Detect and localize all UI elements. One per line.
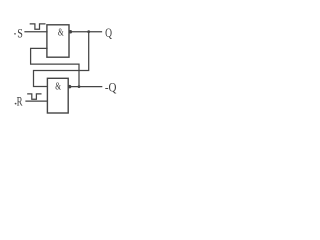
wire S input: [25, 31, 47, 33]
svg-text:-Q: -Q: [105, 81, 117, 95]
svg-text:R: R: [17, 95, 23, 109]
wire Q output: [72, 31, 102, 33]
label -S hyphen: [14, 33, 16, 34]
wire R input: [26, 100, 47, 102]
junction dot on -Q wire: [78, 85, 81, 88]
input pulse symbol on R: [28, 94, 41, 99]
gate G1 output bubble: [69, 30, 73, 34]
wire -Q output: [71, 86, 102, 88]
input pulse symbol on S: [30, 24, 45, 29]
gate G1 (NAND) box: [47, 25, 69, 57]
svg-text:S: S: [17, 26, 23, 40]
wire feedback -Q to G1 input: [31, 48, 79, 86]
junction dot on Q wire: [87, 30, 90, 33]
label -R dot: [15, 103, 17, 105]
gate G2 (NAND) box: [47, 78, 68, 113]
svg-text:&: &: [55, 82, 61, 93]
wire feedback Q to G2 input (vertical drop): [34, 32, 89, 87]
gate G2 output bubble: [68, 85, 72, 89]
svg-text:Q: Q: [105, 26, 112, 40]
svg-text:&: &: [58, 28, 64, 39]
